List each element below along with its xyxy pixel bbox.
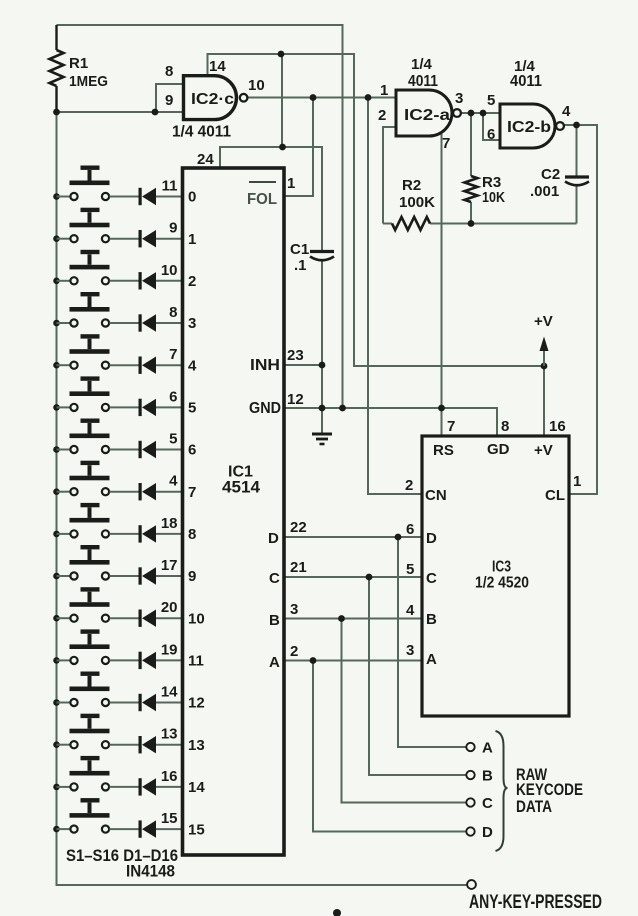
svg-text:1MEG: 1MEG [69,73,108,90]
svg-text:.001: .001 [530,183,559,200]
svg-text:4: 4 [188,357,197,374]
svg-text:1: 1 [287,175,295,192]
svg-text:+V: +V [534,313,553,330]
svg-text:21: 21 [290,559,307,576]
svg-text:8: 8 [169,304,177,321]
svg-text:5: 5 [487,92,495,109]
svg-text:16: 16 [549,418,566,435]
svg-text:D: D [482,824,493,841]
svg-text:GND: GND [249,400,281,417]
svg-text:2: 2 [378,107,386,124]
svg-text:15: 15 [188,821,205,838]
svg-text:4: 4 [169,473,178,490]
svg-text:ANY-KEY-PRESSED: ANY-KEY-PRESSED [469,892,602,913]
svg-text:C: C [269,570,280,587]
svg-text:1: 1 [573,473,581,490]
svg-text:3: 3 [455,90,463,107]
svg-text:C: C [482,795,493,812]
svg-text:17: 17 [161,557,178,574]
svg-text:1/4 4011: 1/4 4011 [172,124,231,141]
svg-text:11: 11 [162,178,178,195]
svg-text:100K: 100K [399,194,435,211]
svg-text:10: 10 [188,610,205,627]
svg-text:4: 4 [562,103,571,120]
svg-text:3: 3 [290,601,298,618]
svg-text:.1: .1 [294,257,307,274]
svg-text:B: B [269,612,280,629]
svg-text:7: 7 [169,346,177,363]
svg-text:DATA: DATA [516,797,552,816]
svg-text:R1: R1 [69,55,88,72]
svg-text:IC3: IC3 [492,559,511,576]
svg-text:4: 4 [406,602,415,619]
svg-text:12: 12 [287,391,304,408]
svg-text:1: 1 [380,82,388,99]
svg-text:1: 1 [188,231,196,248]
svg-text:10: 10 [248,77,265,94]
svg-text:5: 5 [169,431,177,448]
svg-text:10: 10 [161,262,178,279]
svg-text:18: 18 [161,515,178,532]
svg-text:22: 22 [290,519,307,536]
svg-text:3: 3 [406,642,414,659]
svg-text:2: 2 [290,643,298,660]
svg-text:7: 7 [188,484,196,501]
svg-text:1/4: 1/4 [411,56,433,73]
svg-text:20: 20 [161,599,178,616]
svg-text:8: 8 [188,526,196,543]
svg-text:GD: GD [487,441,510,458]
svg-text:IC2-b: IC2-b [507,119,551,136]
svg-text:R2: R2 [402,177,421,194]
svg-text:15: 15 [161,810,178,827]
svg-text:3: 3 [188,315,196,332]
svg-text:9: 9 [169,220,177,237]
svg-text:6: 6 [188,442,196,459]
svg-text:14: 14 [188,779,205,796]
svg-text:2: 2 [405,477,413,494]
svg-text:C: C [426,570,437,587]
svg-text:IN4148: IN4148 [126,862,175,881]
svg-text:+V: +V [534,442,553,459]
svg-text:5: 5 [406,561,414,578]
svg-text:CN: CN [425,487,447,504]
svg-text:13: 13 [161,726,178,743]
svg-text:5: 5 [188,400,196,417]
svg-text:IC2-a: IC2-a [404,107,450,124]
svg-text:B: B [482,768,493,785]
svg-text:19: 19 [161,641,178,658]
svg-text:13: 13 [188,737,205,754]
svg-text:4514: 4514 [222,478,261,497]
svg-text:A: A [269,654,280,671]
svg-text:16: 16 [161,768,178,785]
svg-text:CL: CL [545,487,565,504]
svg-text:1/2 4520: 1/2 4520 [475,575,529,592]
svg-text:6: 6 [406,521,414,538]
svg-text:14: 14 [161,684,178,701]
svg-text:D: D [426,530,437,547]
svg-text:7: 7 [447,418,455,435]
svg-text:24: 24 [197,151,214,168]
svg-text:10K: 10K [482,189,505,206]
svg-text:23: 23 [287,347,304,364]
svg-text:4011: 4011 [408,73,438,90]
svg-text:11: 11 [188,653,204,670]
svg-text:4011: 4011 [510,73,542,90]
svg-text:12: 12 [188,695,205,712]
svg-text:14: 14 [209,58,226,75]
svg-text:7: 7 [442,135,450,152]
svg-text:0: 0 [188,189,196,206]
svg-text:6: 6 [169,388,177,405]
svg-text:8: 8 [165,63,173,80]
svg-text:A: A [426,651,437,668]
svg-text:IC2·c: IC2·c [191,91,234,108]
svg-text:2: 2 [188,273,196,290]
svg-text:C1: C1 [290,241,309,258]
svg-text:6: 6 [487,126,495,143]
svg-text:9: 9 [188,568,196,585]
svg-text:B: B [426,611,437,628]
svg-text:9: 9 [165,92,173,109]
svg-text:RS: RS [433,442,454,459]
svg-text:8: 8 [501,418,509,435]
svg-text:D: D [268,530,279,547]
svg-text:INH: INH [250,357,280,374]
svg-text:FOL: FOL [247,191,277,208]
svg-text:A: A [482,740,493,757]
svg-text:C2: C2 [541,166,560,183]
